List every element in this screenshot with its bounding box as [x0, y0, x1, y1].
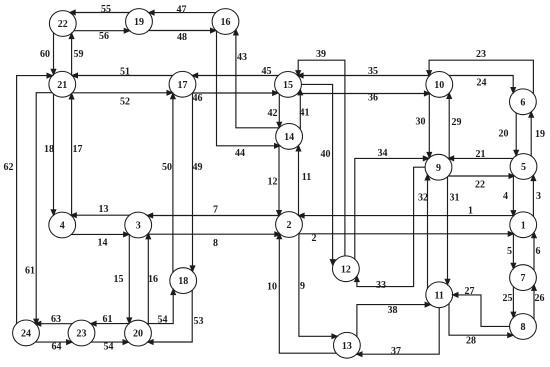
svg-text:21: 21	[476, 149, 486, 160]
svg-text:13: 13	[342, 341, 352, 352]
svg-text:18: 18	[44, 144, 54, 155]
svg-text:20: 20	[499, 129, 509, 140]
svg-text:20: 20	[133, 329, 143, 340]
svg-text:23: 23	[476, 49, 486, 60]
svg-text:22: 22	[58, 19, 68, 30]
svg-text:23: 23	[77, 329, 87, 340]
svg-text:48: 48	[177, 32, 187, 43]
svg-text:12: 12	[341, 264, 351, 275]
svg-text:64: 64	[52, 342, 62, 353]
svg-text:9: 9	[300, 281, 305, 292]
svg-text:55: 55	[101, 4, 111, 15]
svg-text:14: 14	[98, 238, 108, 249]
svg-text:36: 36	[368, 93, 378, 104]
svg-text:49: 49	[193, 162, 203, 173]
svg-text:5: 5	[521, 162, 526, 173]
svg-text:22: 22	[475, 180, 485, 191]
svg-text:19: 19	[134, 17, 144, 28]
svg-text:42: 42	[268, 108, 278, 119]
svg-text:15: 15	[114, 274, 124, 285]
svg-text:1: 1	[468, 206, 473, 217]
svg-text:24: 24	[21, 329, 31, 340]
svg-text:52: 52	[120, 97, 130, 108]
svg-text:26: 26	[535, 293, 545, 304]
svg-text:63: 63	[51, 314, 61, 325]
svg-text:28: 28	[466, 336, 476, 347]
svg-text:54: 54	[158, 315, 168, 326]
svg-text:33: 33	[376, 280, 386, 291]
svg-text:51: 51	[120, 67, 130, 78]
svg-text:37: 37	[391, 346, 401, 357]
svg-text:56: 56	[99, 31, 109, 42]
svg-text:11: 11	[434, 290, 443, 301]
svg-text:25: 25	[503, 293, 513, 304]
svg-text:45: 45	[262, 66, 272, 77]
svg-text:61: 61	[103, 314, 113, 325]
svg-text:8: 8	[521, 322, 526, 333]
svg-text:50: 50	[162, 162, 172, 173]
svg-text:38: 38	[388, 305, 398, 316]
svg-text:19: 19	[535, 129, 545, 140]
svg-text:41: 41	[300, 108, 310, 119]
svg-text:29: 29	[452, 117, 462, 128]
svg-text:24: 24	[477, 78, 487, 89]
svg-text:2: 2	[287, 220, 292, 231]
svg-text:32: 32	[418, 193, 428, 204]
svg-text:35: 35	[368, 66, 378, 77]
svg-text:1: 1	[521, 220, 526, 231]
svg-text:18: 18	[178, 276, 188, 287]
svg-text:10: 10	[434, 80, 444, 91]
svg-text:43: 43	[237, 52, 247, 63]
svg-text:7: 7	[521, 273, 526, 284]
svg-text:54: 54	[104, 342, 114, 353]
svg-text:27: 27	[465, 286, 475, 297]
svg-text:16: 16	[221, 17, 231, 28]
svg-text:47: 47	[177, 5, 187, 16]
svg-text:53: 53	[194, 316, 204, 327]
svg-text:12: 12	[268, 177, 278, 188]
svg-text:11: 11	[302, 172, 311, 183]
svg-text:17: 17	[178, 80, 188, 91]
svg-text:3: 3	[136, 221, 141, 232]
svg-text:60: 60	[40, 49, 50, 60]
svg-text:7: 7	[213, 205, 218, 216]
svg-text:17: 17	[73, 144, 83, 155]
svg-text:40: 40	[321, 149, 331, 160]
svg-text:34: 34	[378, 148, 388, 159]
svg-text:8: 8	[213, 238, 218, 249]
svg-text:39: 39	[316, 49, 326, 60]
svg-text:62: 62	[4, 162, 14, 173]
svg-text:16: 16	[148, 274, 158, 285]
svg-text:46: 46	[193, 93, 203, 104]
svg-text:5: 5	[507, 246, 512, 257]
svg-text:4: 4	[503, 191, 508, 202]
svg-text:3: 3	[536, 191, 541, 202]
svg-text:10: 10	[267, 282, 277, 293]
svg-text:15: 15	[283, 80, 293, 91]
svg-text:6: 6	[536, 246, 541, 257]
svg-text:59: 59	[74, 49, 84, 60]
svg-text:9: 9	[436, 163, 441, 174]
svg-text:13: 13	[99, 204, 109, 215]
svg-text:30: 30	[416, 117, 426, 128]
svg-text:61: 61	[25, 266, 35, 277]
svg-text:6: 6	[520, 97, 525, 108]
svg-text:31: 31	[450, 193, 460, 204]
svg-text:4: 4	[60, 221, 65, 232]
svg-text:2: 2	[312, 233, 317, 244]
svg-text:21: 21	[57, 80, 67, 91]
svg-text:14: 14	[284, 132, 294, 143]
svg-text:44: 44	[235, 148, 245, 159]
